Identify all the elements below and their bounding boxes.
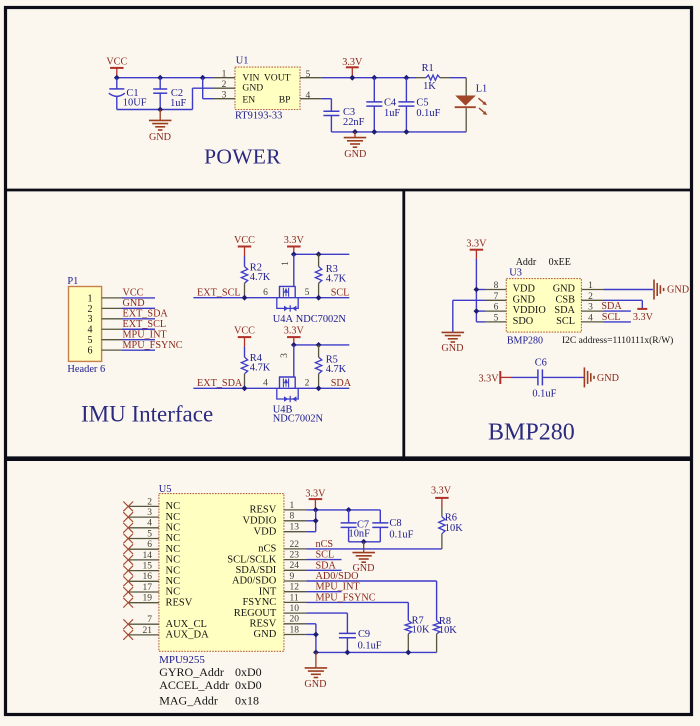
wire net SCL U5: [306, 559, 341, 561]
wire net nCS: [306, 548, 442, 550]
svg-text:C8: C8: [389, 518, 401, 529]
net label EXT_SDA: [123, 309, 169, 320]
resistor R3 4.7K: [315, 254, 346, 297]
svg-text:GND: GND: [123, 298, 145, 309]
svg-text:VOUT: VOUT: [264, 73, 291, 84]
svg-text:U5: U5: [159, 484, 172, 495]
svg-text:7: 7: [147, 615, 152, 625]
wire net EXT_SDA: [193, 387, 349, 389]
svg-text:SCL: SCL: [316, 550, 335, 561]
junction R4 bottom: [242, 385, 248, 391]
no-connect X pin 4: [123, 523, 133, 533]
svg-text:3.3V: 3.3V: [478, 373, 499, 384]
svg-text:C9: C9: [358, 629, 370, 640]
svg-text:6: 6: [494, 303, 499, 313]
svg-text:5: 5: [147, 529, 152, 539]
svg-text:0x18: 0x18: [235, 694, 259, 708]
pin 18 U5 GND: [284, 625, 307, 635]
svg-text:8: 8: [290, 512, 295, 522]
ground right of U3: [654, 280, 689, 300]
svg-text:EXT_SDA: EXT_SDA: [197, 378, 243, 389]
title IMU Interface: [81, 402, 213, 427]
transistor U4B NDC7002N: [273, 345, 324, 424]
wire GND pin7: [453, 300, 485, 332]
junction C2 top: [157, 75, 163, 81]
power port 3.3V BMP280: [466, 239, 487, 259]
junction pin18: [313, 632, 319, 638]
pin 19 U5 RESV: [128, 594, 159, 604]
svg-text:16: 16: [143, 572, 153, 582]
svg-text:AUX_CL: AUX_CL: [166, 619, 207, 630]
pin 7 U5 AUX_CL: [128, 615, 159, 625]
svg-text:3: 3: [588, 303, 593, 313]
wire CSB to 3.3V: [604, 300, 643, 308]
wire C7 C8 gnd rail: [349, 541, 381, 543]
svg-text:MPU_FSYNC: MPU_FSYNC: [316, 592, 376, 603]
pin 16 U5 NC: [128, 572, 159, 582]
junction C2 bottom: [157, 107, 163, 113]
svg-text:U4A: U4A: [273, 314, 294, 325]
power port 3.3V U5: [305, 489, 326, 510]
wire R1 to LED: [450, 77, 466, 79]
wire pin1 3.3V rail: [306, 509, 380, 511]
regulator U1 RT9193-33: [235, 56, 300, 122]
svg-text:EXT_SCL: EXT_SCL: [123, 319, 167, 330]
no-connect X pin 14: [123, 555, 133, 565]
pin 3 U1: [214, 91, 236, 101]
svg-text:VCC: VCC: [123, 288, 144, 299]
svg-text:BP: BP: [279, 94, 291, 105]
svg-text:23: 23: [290, 551, 300, 561]
pin 20 U5 RESV: [284, 615, 307, 625]
capacitor C1 10UF polarized: [109, 78, 147, 110]
net label AD0/SDO: [316, 571, 359, 582]
wire net VCC: [122, 297, 155, 299]
svg-text:SCL/SCLK: SCL/SCLK: [227, 554, 276, 565]
wire REGOUT to C9: [306, 613, 347, 633]
junction EN tap: [200, 75, 206, 81]
svg-text:6: 6: [147, 540, 152, 550]
svg-text:10UF: 10UF: [123, 97, 147, 108]
svg-text:1: 1: [588, 281, 593, 291]
svg-text:10K: 10K: [412, 624, 430, 635]
svg-text:2: 2: [88, 304, 93, 315]
svg-text:CSB: CSB: [556, 294, 576, 305]
junction C4 bottom: [371, 129, 377, 135]
net label nCS: [316, 539, 334, 550]
pin 2 U5 NC: [128, 497, 159, 507]
svg-text:RESV: RESV: [166, 597, 193, 608]
svg-text:NC: NC: [166, 523, 181, 534]
svg-text:SCL: SCL: [556, 316, 575, 327]
junction 3.3V stem: [291, 251, 297, 257]
pin 1 U3 right: [581, 281, 603, 291]
svg-text:4: 4: [588, 313, 593, 323]
no-connect X pin 7: [123, 619, 133, 629]
pin 3 U3 right: [581, 303, 603, 313]
svg-text:20: 20: [290, 615, 300, 625]
junction gnd rail left: [313, 650, 319, 656]
svg-text:EXT_SCL: EXT_SCL: [197, 287, 241, 298]
svg-text:GND: GND: [344, 149, 366, 160]
svg-text:3: 3: [222, 91, 227, 101]
pin 2 U4B: [305, 379, 310, 389]
svg-text:12: 12: [290, 583, 300, 593]
pin 4 U5 NC: [128, 519, 159, 529]
net label MPU_INT: [123, 329, 168, 340]
wire net GND: [122, 307, 155, 309]
header P1 Header 6: [67, 276, 105, 375]
svg-text:GND: GND: [553, 284, 576, 295]
svg-text:4.7K: 4.7K: [250, 272, 271, 283]
junction R3 bottom: [316, 295, 322, 301]
power port VCC: [106, 57, 127, 78]
svg-text:3.3V: 3.3V: [466, 239, 487, 250]
transistor U4A NDC7002N: [273, 254, 347, 324]
svg-text:MPU_INT: MPU_INT: [316, 582, 361, 593]
svg-text:Addr: Addr: [516, 257, 537, 268]
net label SCL U3: [602, 312, 621, 323]
capacitor C7 10nF: [341, 510, 370, 542]
svg-text:RESV: RESV: [249, 505, 276, 516]
svg-text:0.1uF: 0.1uF: [416, 108, 440, 119]
svg-text:22: 22: [290, 540, 300, 550]
pin 2 P1: [102, 307, 122, 309]
no-connect X pin 5: [123, 534, 133, 544]
pin 22 U5 nCS: [284, 540, 307, 550]
svg-text:18: 18: [290, 625, 300, 635]
resistor R1 1K: [416, 63, 450, 92]
svg-text:10: 10: [290, 604, 300, 614]
no-connect X pin 19: [123, 598, 133, 608]
pin 6 U3: [485, 303, 506, 313]
wire VCC rail: [117, 77, 214, 79]
pin 8 U3: [485, 281, 506, 291]
svg-text:SDA: SDA: [601, 301, 622, 312]
svg-text:R1: R1: [422, 63, 434, 74]
net label EXT_SDA: [197, 378, 243, 389]
net label GND: [123, 298, 145, 309]
text accel address: [159, 678, 261, 692]
wire net MPU_INT: [306, 591, 341, 593]
wire net MPU_FSYNC: [306, 602, 408, 620]
junction VDD tap: [474, 287, 480, 293]
capacitor C9 0.1uF: [339, 629, 382, 652]
svg-text:NC: NC: [166, 576, 181, 587]
svg-text:U1: U1: [236, 56, 249, 67]
svg-text:3: 3: [147, 508, 152, 518]
svg-text:1: 1: [88, 293, 93, 304]
no-connect X pin 17: [123, 587, 133, 597]
net label SDA U5: [316, 560, 337, 571]
svg-text:GND: GND: [254, 629, 277, 640]
pin 3 P1: [102, 318, 122, 320]
svg-text:C6: C6: [535, 358, 547, 369]
svg-text:3.3V: 3.3V: [284, 235, 305, 246]
svg-text:7: 7: [494, 292, 499, 302]
text gyro address: [159, 665, 261, 679]
svg-text:13: 13: [290, 523, 300, 533]
svg-text:0xD0: 0xD0: [235, 678, 262, 692]
svg-text:SCL: SCL: [602, 312, 621, 323]
svg-text:nCS: nCS: [258, 544, 276, 555]
svg-text:FSYNC: FSYNC: [242, 597, 276, 608]
pin 1 U1: [214, 70, 236, 80]
svg-text:0.1uF: 0.1uF: [358, 640, 382, 651]
sensor U3 BMP280: [506, 257, 673, 347]
svg-text:5: 5: [494, 313, 499, 323]
svg-text:AD0/SDO: AD0/SDO: [316, 571, 359, 582]
resistor R6 10K: [439, 507, 463, 549]
junction 3.3V stem: [291, 342, 297, 348]
net label SCL: [331, 287, 350, 298]
svg-text:1uF: 1uF: [384, 108, 400, 119]
pin 7 U3: [485, 292, 506, 302]
svg-text:AUX_DA: AUX_DA: [166, 630, 210, 641]
junction R5 top: [316, 342, 322, 348]
no-connect X pin 21: [123, 630, 133, 640]
svg-text:VCC: VCC: [106, 57, 127, 68]
svg-text:BMP280: BMP280: [507, 336, 543, 347]
svg-text:8: 8: [494, 281, 499, 291]
wire net MPU_FSYNC: [122, 349, 155, 351]
pin 4 U4B: [263, 379, 268, 389]
no-connect X pin 16: [123, 576, 133, 586]
wire VOUT 3.3V rail: [322, 77, 416, 79]
pin 4 U3 right: [581, 313, 603, 323]
svg-text:0.1uF: 0.1uF: [532, 389, 556, 400]
pin 2 U3 right: [581, 292, 603, 302]
svg-text:3.3V: 3.3V: [342, 57, 363, 68]
junction 3.3V port: [349, 75, 355, 81]
pin 4 P1: [102, 328, 122, 330]
wire net SCL U3: [604, 321, 631, 323]
ground power rail: [344, 132, 367, 160]
pin 5 U4A: [305, 288, 310, 298]
resistor R7 10K: [405, 616, 430, 653]
wire power gnd rail: [331, 131, 466, 133]
svg-text:VCC: VCC: [234, 326, 255, 337]
resistor R4 4.7K: [241, 347, 270, 389]
svg-text:4: 4: [88, 325, 93, 336]
junction VDDIO tap U5: [313, 518, 319, 524]
wire net AD0/SDO: [306, 581, 436, 621]
ground C7 C8: [352, 542, 375, 574]
svg-text:INT: INT: [259, 586, 277, 597]
wire net SDA U3: [604, 310, 631, 312]
svg-text:GND: GND: [513, 294, 536, 305]
no-connect X pin 6: [123, 544, 133, 554]
pin 2 U1: [214, 80, 236, 90]
svg-text:1K: 1K: [423, 81, 436, 92]
svg-text:6: 6: [263, 288, 268, 298]
svg-text:NC: NC: [166, 565, 181, 576]
resistor R2 4.7K: [241, 256, 270, 298]
pin 1 P1: [102, 297, 122, 299]
svg-text:22nF: 22nF: [343, 117, 365, 128]
junction C9 bottom: [345, 650, 351, 656]
wire 3.3V to VDD VDDIO SDO: [476, 259, 485, 322]
power port VCC pullup U4A: [234, 235, 255, 256]
svg-text:21: 21: [143, 626, 153, 636]
power port VCC pullup U4B: [234, 326, 255, 347]
svg-text:VDD: VDD: [254, 526, 277, 537]
pin 9 U5 AD0/SDO: [284, 572, 307, 582]
wire pin2 to gnd rail: [193, 88, 214, 109]
svg-text:1uF: 1uF: [170, 98, 186, 109]
svg-text:4.7K: 4.7K: [326, 273, 347, 284]
pin 15 U5 NC: [128, 562, 159, 572]
svg-text:RESV: RESV: [249, 619, 276, 630]
wire EN to VCC: [203, 78, 214, 99]
wire net EXT_SDA: [122, 318, 155, 320]
junction gnd tap: [352, 129, 358, 135]
IMU U5 MPU9255: [159, 484, 284, 666]
no-connect X pin 15: [123, 566, 133, 576]
svg-text:NDC7002N: NDC7002N: [296, 314, 347, 325]
junction R7 bottom: [405, 650, 411, 656]
capacitor C2 1uF: [153, 78, 186, 110]
svg-text:RT9193-33: RT9193-33: [235, 111, 282, 122]
wire pin20 pin18 to gnd: [306, 624, 316, 653]
wire pin1 to GND: [604, 289, 653, 291]
svg-text:IMU Interface: IMU Interface: [81, 402, 213, 427]
title POWER: [204, 145, 281, 169]
no-connect X pin 2: [123, 502, 133, 512]
svg-text:MAG_Addr: MAG_Addr: [159, 694, 218, 708]
pin 13 U5 VDD: [284, 523, 307, 533]
svg-text:EN: EN: [242, 94, 255, 105]
pin 8 U5 VDDIO: [284, 512, 307, 522]
net label MPU_FSYNC: [316, 592, 376, 603]
ground BMP280: [441, 332, 464, 354]
net label MPU_INT: [316, 582, 361, 593]
svg-text:3.3V: 3.3V: [284, 326, 305, 337]
svg-text:4.7K: 4.7K: [250, 363, 271, 374]
junction R2 bottom: [242, 295, 248, 301]
net label SDA: [331, 378, 352, 389]
svg-text:BMP280: BMP280: [488, 420, 575, 446]
svg-text:U4B: U4B: [273, 404, 293, 415]
svg-text:SDA: SDA: [331, 378, 352, 389]
wire net MPU_INT: [122, 339, 155, 341]
svg-text:NC: NC: [166, 555, 181, 566]
pin 5 U5 NC: [128, 529, 159, 539]
svg-text:2: 2: [305, 379, 310, 389]
wire 3.3V to VDDIO VDD: [306, 510, 315, 532]
svg-text:GND: GND: [149, 132, 171, 143]
pin 5 U3: [485, 313, 506, 323]
wire 3.3V rail: [294, 344, 350, 346]
svg-text:AD0/SDO: AD0/SDO: [232, 576, 277, 587]
net label EXT_SCL: [123, 319, 167, 330]
svg-text:10K: 10K: [445, 523, 463, 534]
title BMP280: [488, 420, 575, 446]
pin 11 U5 FSYNC: [284, 593, 307, 603]
wire GND rail under C1 C2: [117, 109, 193, 111]
svg-text:VDD: VDD: [513, 284, 536, 295]
svg-text:C5: C5: [416, 98, 428, 109]
svg-text:4: 4: [147, 519, 152, 529]
svg-text:U3: U3: [509, 267, 522, 278]
pin 24 U5 SDA/SDI: [284, 561, 307, 571]
pin 21 U5 AUX_DA: [128, 626, 159, 636]
pin 23 U5 SCL/SCLK: [284, 551, 307, 561]
pin 3 U5 NC: [128, 508, 159, 518]
junction C5 bottom: [404, 129, 410, 135]
svg-text:L1: L1: [476, 83, 488, 94]
LED L1: [455, 78, 488, 132]
svg-text:11: 11: [290, 593, 299, 603]
svg-text:3: 3: [280, 353, 290, 358]
wire bottom gnd rail: [316, 651, 437, 653]
svg-text:6: 6: [88, 346, 93, 357]
svg-text:0xEE: 0xEE: [549, 257, 571, 268]
svg-text:3.3V: 3.3V: [305, 489, 326, 500]
svg-text:14: 14: [143, 551, 153, 561]
resistor R8 10K: [433, 616, 457, 652]
svg-text:3.3V: 3.3V: [633, 312, 654, 323]
ground right of C6: [584, 367, 619, 387]
pin 1 U5 RESV: [284, 501, 307, 511]
svg-text:5: 5: [305, 288, 310, 298]
capacitor C6 0.1uF: [511, 358, 584, 400]
junction C5 top: [404, 75, 410, 81]
wire 3.3V rail: [294, 253, 350, 255]
svg-text:Header 6: Header 6: [67, 364, 105, 375]
svg-text:VDDIO: VDDIO: [513, 305, 547, 316]
svg-text:C4: C4: [384, 98, 397, 109]
svg-text:SCL: SCL: [331, 287, 350, 298]
svg-text:24: 24: [290, 561, 300, 571]
svg-text:2: 2: [222, 80, 227, 90]
svg-text:10K: 10K: [439, 625, 457, 636]
pin 6 U4A: [263, 288, 268, 298]
svg-text:2: 2: [588, 292, 593, 302]
svg-text:SDA: SDA: [316, 560, 337, 571]
pin 12 U5 INT: [284, 583, 307, 593]
svg-text:REGOUT: REGOUT: [234, 608, 277, 619]
pin 6 P1: [102, 349, 122, 351]
svg-text:nCS: nCS: [316, 539, 334, 550]
svg-text:P1: P1: [67, 276, 78, 287]
wire net EXT_SCL: [122, 328, 155, 330]
svg-text:1: 1: [222, 70, 227, 80]
ground under C2: [149, 110, 172, 143]
power port 3.3V decoupling C6: [478, 371, 511, 384]
pin 10 U5 REGOUT: [284, 604, 307, 614]
power port 3.3V: [342, 57, 363, 78]
svg-text:ACCEL_Addr: ACCEL_Addr: [159, 678, 229, 692]
net label MPU_FSYNC: [123, 340, 183, 351]
net label VCC: [123, 288, 144, 299]
svg-text:GND: GND: [597, 373, 619, 384]
svg-text:0.1uF: 0.1uF: [389, 529, 413, 540]
pin 5 U1: [300, 70, 322, 80]
svg-text:NC: NC: [166, 501, 181, 512]
svg-text:MPU_FSYNC: MPU_FSYNC: [123, 340, 183, 351]
junction VDDIO tap: [474, 308, 480, 314]
svg-text:15: 15: [143, 562, 153, 572]
power port 3.3V U4B: [284, 326, 305, 345]
svg-text:1: 1: [290, 501, 295, 511]
power port 3.3V U4A: [284, 235, 305, 254]
pin 4 U1: [300, 91, 322, 101]
svg-text:GND: GND: [441, 343, 463, 354]
svg-text:POWER: POWER: [204, 145, 281, 169]
pin 17 U5 NC: [128, 583, 159, 593]
pin 6 U5 NC: [128, 540, 159, 550]
